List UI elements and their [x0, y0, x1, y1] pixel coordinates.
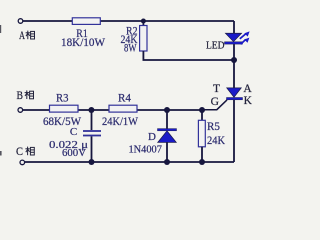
terminal B-phase: [18, 108, 23, 113]
label C相: [16, 146, 34, 158]
svg-text:K: K: [244, 95, 253, 107]
svg-text:LED: LED: [206, 39, 225, 51]
terminal A-phase: [18, 19, 23, 24]
svg-text:600V: 600V: [62, 147, 86, 159]
node junction C bottom: [89, 159, 95, 165]
diode D: [158, 129, 177, 143]
capacitor C: [83, 130, 101, 136]
wire D bottom lead: [166, 142, 168, 162]
svg-text:B: B: [17, 90, 24, 102]
resistor R3: [50, 105, 79, 112]
resistor R2: [140, 26, 147, 52]
wire C top lead: [91, 110, 93, 130]
node junction C top: [88, 107, 94, 113]
LED indicator: [225, 31, 250, 44]
svg-text:T: T: [213, 83, 220, 95]
label A相: [19, 30, 35, 42]
wire C-row bottom: [25, 161, 234, 163]
svg-text:8W: 8W: [124, 42, 137, 54]
svg-text:24K: 24K: [207, 135, 226, 147]
wire B-row middle: [23, 109, 204, 111]
terminal C-phase: [20, 160, 25, 165]
node junction D top: [164, 107, 170, 113]
resistor R4: [109, 105, 137, 112]
wire A-row top: [23, 20, 234, 22]
svg-text:C: C: [16, 146, 23, 158]
svg-text:A: A: [19, 30, 25, 42]
svg-text:D: D: [148, 131, 156, 143]
wire C bottom lead: [91, 136, 93, 162]
wire thyristor cathode down right side: [233, 100, 235, 162]
resistor R5: [198, 120, 205, 147]
wire R2 bottom to LED cathode node: [143, 51, 234, 60]
svg-text:R4: R4: [118, 92, 131, 104]
wire LED cathode to node: [233, 44, 235, 60]
wire node to thyristor anode: [233, 60, 235, 88]
svg-text:1N4007: 1N4007: [128, 143, 162, 155]
svg-text:A: A: [243, 83, 252, 95]
svg-text:R3: R3: [56, 92, 69, 104]
node junction R2 top: [141, 19, 146, 24]
wire D top lead: [166, 110, 168, 129]
wire R5 top lead: [201, 110, 203, 120]
thyristor T: [227, 88, 243, 100]
label B相: [17, 90, 34, 102]
node LED cathode junction: [231, 57, 237, 63]
wire R5 bottom lead: [201, 147, 203, 162]
wire gate of thyristor: [202, 100, 227, 110]
svg-text:G: G: [211, 96, 219, 108]
svg-text:C: C: [70, 126, 77, 138]
edge mark bottom left: [0, 151, 2, 156]
node junction gate and R5: [199, 107, 205, 113]
wire LED anode drop: [233, 21, 235, 34]
wire R2 top lead: [142, 21, 144, 26]
svg-text:R5: R5: [207, 121, 220, 133]
node junction D bottom: [164, 159, 170, 165]
resistor R1: [72, 18, 100, 25]
svg-text:18K/10W: 18K/10W: [61, 37, 105, 49]
svg-text:24K/1W: 24K/1W: [102, 116, 138, 128]
edge mark top left: [0, 25, 1, 33]
node junction R5 bottom: [199, 159, 205, 165]
